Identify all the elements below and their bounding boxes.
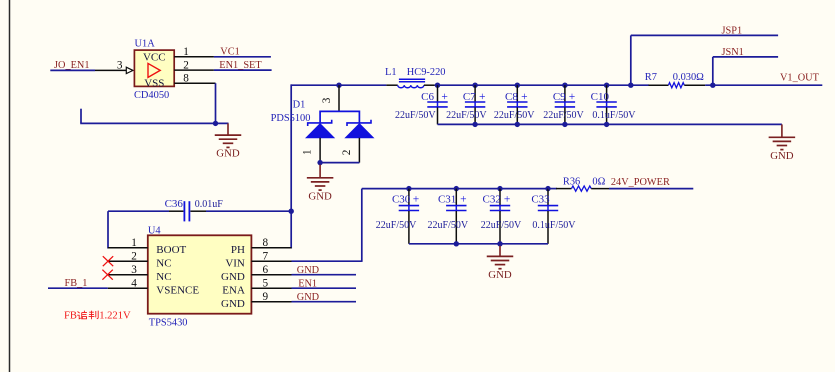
- svg-text:VC1: VC1: [220, 47, 239, 58]
- ground GND right of C10 rail: [769, 124, 796, 161]
- wire bottom rail of C6-C10: [438, 123, 782, 125]
- net label JSP1: [722, 25, 743, 36]
- svg-text:C7: C7: [463, 91, 476, 103]
- wire VIN to cap bank: [292, 189, 362, 262]
- junction dot C7 bottom: [472, 122, 477, 127]
- junction dot C6 top: [435, 83, 440, 88]
- svg-text:0.1uF/50V: 0.1uF/50V: [532, 220, 576, 231]
- svg-text:U4: U4: [148, 226, 162, 237]
- svg-text:VSS: VSS: [144, 77, 164, 89]
- no-connect X on U4 pin 3: [102, 270, 112, 280]
- junction dot C10 top: [604, 83, 609, 88]
- svg-text:22uF/50V: 22uF/50V: [494, 110, 535, 121]
- svg-text:0.01uF: 0.01uF: [195, 199, 224, 210]
- diode D1 left half (schottky): [306, 120, 334, 138]
- net label EN1_SET: [219, 60, 262, 71]
- capacitor C7: [446, 85, 487, 124]
- wire stub left of ground net: [80, 109, 228, 124]
- net label 24V_POWER: [611, 177, 670, 188]
- pin 6 of U4 (GND): [221, 264, 291, 283]
- wire C30 bank top rail: [362, 188, 548, 190]
- svg-text:GND: GND: [297, 265, 320, 276]
- capacitor C31: [428, 189, 469, 244]
- svg-text:R36: R36: [563, 177, 580, 188]
- diode D1 right half (schottky): [346, 120, 374, 138]
- wire cathode bridge of D1: [320, 111, 359, 122]
- wire C36 left down to U4 pin 1: [107, 211, 109, 248]
- capacitor C9: [543, 85, 584, 124]
- annotation FB modulation 1.221V: [64, 311, 131, 322]
- svg-text:6: 6: [263, 264, 269, 276]
- ground GND under C30 bank: [487, 246, 514, 281]
- svg-text:3: 3: [117, 59, 123, 71]
- pin 2 of D1: [341, 138, 359, 163]
- wire R7 to V1_OUT: [705, 84, 822, 86]
- svg-text:PDS5100: PDS5100: [271, 113, 311, 124]
- svg-text:5: 5: [263, 278, 269, 290]
- svg-text:+: +: [479, 91, 486, 103]
- svg-text:V1_OUT: V1_OUT: [780, 73, 820, 84]
- svg-text:JO_EN1: JO_EN1: [54, 60, 89, 71]
- svg-text:1.221V: 1.221V: [99, 311, 131, 322]
- net label GND on pin 9: [297, 292, 320, 303]
- no-connect X on U4 pin 2: [103, 256, 113, 266]
- svg-text:7: 7: [263, 251, 269, 263]
- svg-text:3: 3: [131, 264, 137, 276]
- svg-text:ENA: ENA: [222, 284, 245, 296]
- pin 5 of U4 (ENA): [222, 278, 291, 297]
- svg-text:8: 8: [263, 237, 269, 249]
- svg-text:EN1: EN1: [298, 278, 317, 289]
- svg-text:GND: GND: [297, 292, 320, 303]
- wire vertical PH rail down to U4 pin 8: [290, 84, 292, 248]
- wire JSN1 branch: [713, 57, 778, 85]
- junction dot C32 bottom: [497, 241, 502, 246]
- wire main rail from corner to L1: [291, 84, 386, 86]
- junction dot pin8/gnd: [213, 121, 218, 126]
- svg-text:2: 2: [183, 59, 189, 71]
- svg-text:C36: C36: [165, 198, 184, 210]
- svg-text:4: 4: [131, 278, 137, 290]
- pin 2 of U4 (NC): [108, 251, 172, 270]
- svg-text:22uF/50V: 22uF/50V: [446, 110, 487, 121]
- svg-text:NC: NC: [156, 271, 171, 283]
- svg-text:22uF/50V: 22uF/50V: [428, 220, 469, 231]
- junction dot C8 top: [515, 83, 520, 88]
- pin 4 of U4 (VSENCE): [108, 278, 200, 297]
- svg-text:GND: GND: [221, 271, 245, 283]
- wire EN1_SET: [214, 69, 272, 71]
- svg-text:GND: GND: [308, 190, 332, 202]
- svg-text:+: +: [413, 194, 420, 206]
- wire GND net from U4 pin 9: [292, 301, 357, 303]
- svg-text:24V_POWER: 24V_POWER: [611, 177, 670, 188]
- svg-text:EN1_SET: EN1_SET: [219, 60, 262, 71]
- pin 7 of U4 (VIN): [225, 251, 291, 270]
- svg-text:GND: GND: [221, 298, 245, 310]
- svg-text:L1: L1: [385, 67, 397, 78]
- junction dot D1 anode: [317, 160, 322, 165]
- svg-text:NC: NC: [156, 257, 171, 269]
- svg-text:CD4050: CD4050: [134, 90, 169, 101]
- ground GND under U1A: [215, 123, 242, 159]
- junction dot C7 top: [472, 83, 477, 88]
- junction dot C32 top: [497, 186, 502, 191]
- pin 9 of U4 (GND): [221, 291, 291, 310]
- wire EN1 net from U4 pin 5: [292, 287, 357, 289]
- svg-text:FB_1: FB_1: [65, 278, 88, 289]
- capacitor C30: [376, 189, 419, 244]
- net label GND on pin 6: [297, 265, 320, 276]
- pin 1 of U1A: [174, 46, 214, 58]
- svg-text:22uF/50V: 22uF/50V: [481, 220, 522, 231]
- junction dot C31 bottom: [454, 241, 459, 246]
- resistor R36: [556, 177, 609, 192]
- IC U4 TPS5430 body: [148, 226, 252, 329]
- resistor R7: [645, 72, 705, 88]
- svg-text:1: 1: [302, 149, 314, 155]
- svg-text:1: 1: [183, 46, 189, 58]
- svg-text:C30: C30: [392, 193, 411, 205]
- svg-text:8: 8: [183, 72, 189, 84]
- capacitor C10: [591, 85, 637, 124]
- net label VC1: [220, 47, 239, 58]
- svg-text:3: 3: [321, 97, 333, 103]
- junction dot C31 top: [454, 186, 459, 191]
- op-amp buffer U1A: [134, 39, 174, 101]
- svg-text:22uF/50V: 22uF/50V: [395, 110, 436, 121]
- svg-text:U1A: U1A: [135, 39, 156, 50]
- net label JSN1: [722, 47, 744, 58]
- svg-text:C6: C6: [421, 91, 434, 103]
- pin 3 of D1: [321, 85, 339, 111]
- sheet border line: [9, 0, 11, 372]
- capacitor C36: [108, 198, 291, 221]
- svg-text:2: 2: [131, 251, 137, 263]
- svg-text:22uF/50V: 22uF/50V: [543, 110, 584, 121]
- svg-text:GND: GND: [770, 150, 794, 162]
- wire rail L1 to R7: [435, 84, 649, 86]
- capacitor C8: [494, 85, 535, 124]
- wire bottom rail of C30-C33: [409, 243, 548, 245]
- wire VC1: [214, 56, 271, 58]
- svg-text:FB: FB: [64, 311, 77, 322]
- svg-text:C31: C31: [438, 193, 456, 205]
- junction dot D1 tap: [336, 83, 341, 88]
- input arrow on U1A pin 3: [126, 67, 133, 73]
- inductor L1: [385, 67, 445, 88]
- pin 1 of U4 (BOOT): [108, 237, 187, 256]
- svg-text:2: 2: [341, 150, 353, 156]
- pin 1 of D1: [302, 138, 320, 163]
- svg-text:0.1uF/50V: 0.1uF/50V: [592, 110, 636, 121]
- net label JO_EN1: [54, 60, 89, 71]
- svg-text:VCC: VCC: [143, 51, 166, 63]
- svg-text:C9: C9: [553, 91, 566, 103]
- svg-text:VIN: VIN: [225, 257, 245, 269]
- wire FB_1: [48, 287, 108, 289]
- svg-text:C8: C8: [505, 91, 518, 103]
- wire rail to R36: [548, 188, 557, 190]
- junction dot JSN1 tap: [710, 83, 715, 88]
- svg-text:+: +: [504, 194, 511, 206]
- svg-text:GND: GND: [216, 148, 240, 160]
- capacitor C6: [395, 85, 448, 124]
- pin 2 of U1A: [174, 59, 214, 71]
- net label EN1 on pin 5: [298, 278, 317, 289]
- capacitor C33: [531, 189, 576, 244]
- svg-text:0Ω: 0Ω: [592, 177, 605, 188]
- junction dot C10 bottom: [604, 122, 609, 127]
- capacitor C32: [481, 189, 522, 244]
- net label V1_OUT: [780, 73, 820, 84]
- svg-text:R7: R7: [645, 72, 657, 83]
- svg-text:C32: C32: [483, 193, 501, 205]
- svg-text:JSP1: JSP1: [722, 25, 743, 36]
- pin 8 of U1A: [174, 72, 215, 84]
- wire JSP1 branch: [631, 35, 778, 85]
- junction dot C33 top: [545, 186, 550, 191]
- wire JO_EN1: [50, 69, 95, 71]
- svg-text:GND: GND: [488, 269, 512, 281]
- svg-text:PH: PH: [231, 244, 245, 256]
- wire GND net from U4 pin 6: [292, 274, 357, 276]
- svg-text:22uF/50V: 22uF/50V: [376, 220, 417, 231]
- svg-text:HC9-220: HC9-220: [407, 67, 446, 78]
- junction dot JSP1 tap: [628, 83, 633, 88]
- svg-text:BOOT: BOOT: [156, 244, 186, 256]
- ground GND under D1: [307, 165, 334, 203]
- svg-text:JSN1: JSN1: [722, 47, 744, 58]
- svg-text:+: +: [441, 91, 448, 103]
- net label FB_1: [65, 278, 88, 289]
- svg-text:+: +: [521, 91, 528, 103]
- wire 24V_POWER: [609, 188, 693, 190]
- pin 8 of U4 (PH): [231, 237, 292, 256]
- svg-text:+: +: [460, 194, 467, 206]
- pin 3 of U1A: [95, 59, 126, 71]
- junction dot C9 top: [562, 83, 567, 88]
- svg-text:TPS5430: TPS5430: [149, 318, 188, 329]
- svg-text:D1: D1: [293, 100, 306, 111]
- svg-text:0.030Ω: 0.030Ω: [673, 72, 704, 83]
- wire from U1A pin 8 down to ground: [215, 83, 217, 123]
- svg-text:VSENCE: VSENCE: [156, 284, 199, 296]
- svg-text:+: +: [569, 91, 576, 103]
- junction dot C8 bottom: [515, 122, 520, 127]
- junction dot C9 bottom: [562, 122, 567, 127]
- pin 3 of U4 (NC): [108, 264, 172, 283]
- junction dot C30 top: [406, 186, 411, 191]
- svg-text:9: 9: [263, 291, 269, 303]
- diode D1 designator: [271, 100, 311, 124]
- svg-text:1: 1: [131, 237, 137, 249]
- svg-text:C33: C33: [531, 193, 550, 205]
- junction dot C36/PH: [289, 209, 294, 214]
- svg-text:C10: C10: [591, 91, 610, 103]
- wire D1 anodes join: [320, 162, 359, 164]
